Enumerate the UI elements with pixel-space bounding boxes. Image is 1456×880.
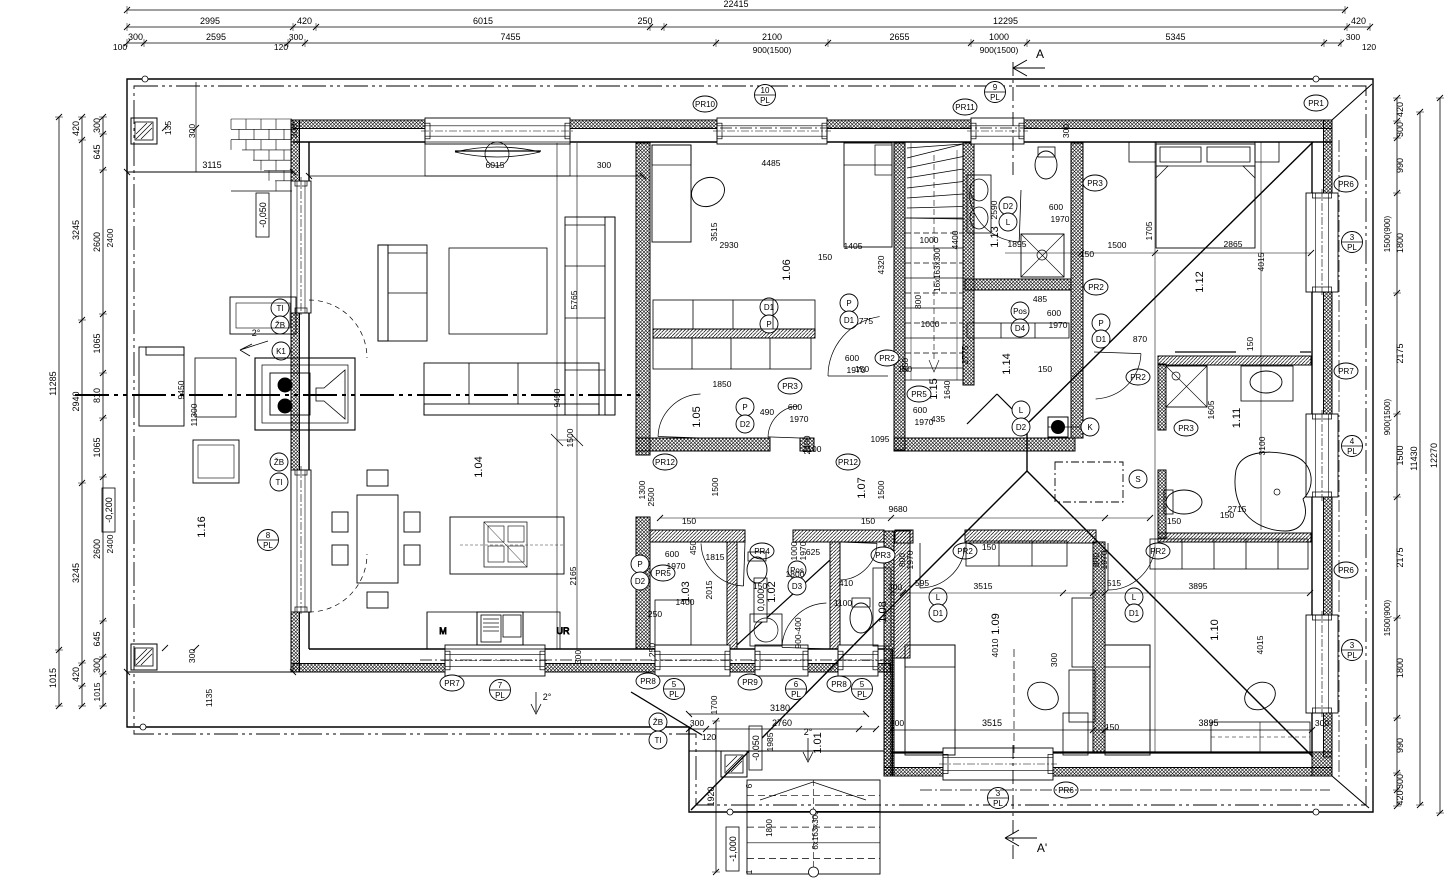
svg-text:5: 5 [860,680,865,689]
svg-text:1400: 1400 [676,597,695,607]
svg-text:16x163x300: 16x163x300 [933,248,942,292]
svg-text:1000: 1000 [989,32,1009,42]
svg-text:PR3: PR3 [875,551,891,560]
svg-text:PL: PL [263,541,273,550]
svg-text:PL: PL [990,93,1000,102]
svg-text:ŽB: ŽB [653,718,663,727]
svg-text:625: 625 [806,547,820,557]
svg-text:D1: D1 [1129,609,1140,618]
svg-text:PL: PL [760,96,770,105]
svg-text:PR2: PR2 [957,547,973,556]
svg-text:0,000: 0,000 [756,589,766,612]
svg-text:1.10: 1.10 [1209,619,1221,640]
svg-text:PR11: PR11 [955,103,975,112]
svg-text:600: 600 [665,549,679,559]
svg-text:1500: 1500 [1395,445,1405,465]
svg-text:K1: K1 [276,347,286,356]
svg-text:870: 870 [1133,334,1147,344]
svg-text:1065: 1065 [92,333,102,353]
svg-text:600: 600 [788,402,802,412]
svg-text:PL: PL [1347,243,1357,252]
svg-text:2775: 2775 [960,345,970,364]
svg-text:8: 8 [266,531,271,540]
svg-text:3515: 3515 [709,222,719,241]
svg-text:1705: 1705 [1144,221,1154,240]
svg-text:2590: 2590 [989,200,999,219]
svg-text:PR6: PR6 [1058,786,1074,795]
svg-text:5345: 5345 [1165,32,1185,42]
svg-text:300: 300 [92,658,102,673]
svg-text:PL: PL [857,690,867,699]
svg-text:3180: 3180 [770,703,790,713]
svg-text:4015: 4015 [1255,635,1265,654]
svg-text:M: M [439,626,447,636]
svg-text:3895: 3895 [1189,581,1208,591]
svg-text:1850: 1850 [713,379,732,389]
svg-text:150: 150 [1167,516,1181,526]
svg-text:2600: 2600 [92,232,102,252]
svg-text:1.09: 1.09 [990,613,1002,634]
svg-text:1: 1 [745,869,754,874]
svg-text:2600: 2600 [92,539,102,559]
svg-text:600: 600 [913,405,927,415]
svg-text:2°: 2° [252,328,261,338]
svg-text:-0,200: -0,200 [104,497,114,523]
svg-text:L: L [1019,406,1024,415]
svg-text:PL: PL [1347,447,1357,456]
svg-text:PR12: PR12 [655,458,676,467]
svg-text:P: P [1098,319,1103,328]
svg-text:135: 135 [163,121,173,135]
svg-text:1500(900): 1500(900) [1383,215,1392,252]
svg-text:7: 7 [498,681,503,690]
svg-text:485: 485 [1033,294,1047,304]
svg-text:2595: 2595 [206,32,226,42]
svg-text:PL: PL [495,691,505,700]
svg-text:1.02: 1.02 [766,581,778,602]
svg-text:2715: 2715 [1228,504,1247,514]
svg-text:2400: 2400 [105,228,115,247]
svg-text:600: 600 [1047,308,1061,318]
svg-text:1065: 1065 [92,437,102,457]
svg-text:1970: 1970 [905,550,915,569]
svg-text:L: L [936,593,941,602]
svg-text:3: 3 [1350,641,1355,650]
svg-text:A': A' [1037,841,1047,855]
svg-text:1970: 1970 [790,414,809,424]
svg-text:300: 300 [888,582,902,592]
svg-text:595: 595 [915,578,929,588]
svg-text:S: S [1135,475,1140,484]
svg-text:D1: D1 [1096,335,1107,344]
svg-text:P: P [742,403,747,412]
svg-text:1970: 1970 [798,541,808,560]
svg-text:1970: 1970 [1051,214,1070,224]
svg-text:1.14: 1.14 [1001,353,1013,374]
svg-text:PR10: PR10 [695,100,716,109]
svg-text:1500: 1500 [1108,240,1127,250]
svg-text:PR3: PR3 [1087,179,1103,188]
svg-text:300: 300 [1395,774,1405,789]
svg-text:TI: TI [276,304,283,313]
svg-text:2500: 2500 [646,487,656,506]
svg-text:K: K [1087,423,1093,432]
svg-text:1.16: 1.16 [196,516,208,537]
svg-text:2400: 2400 [802,435,812,454]
svg-text:515: 515 [1107,578,1121,588]
svg-text:PR4: PR4 [754,547,770,556]
svg-text:1800: 1800 [786,569,805,579]
svg-text:2°: 2° [543,692,552,702]
svg-text:PR3: PR3 [1178,424,1194,433]
svg-text:3895: 3895 [1198,718,1218,728]
svg-text:PR2: PR2 [1150,547,1166,556]
svg-text:2175: 2175 [1395,343,1405,363]
svg-text:L: L [1006,218,1011,227]
svg-text:L: L [1132,593,1137,602]
svg-text:PR1: PR1 [1308,99,1324,108]
svg-text:3245: 3245 [71,563,81,583]
svg-text:300: 300 [573,650,583,664]
svg-text:11300: 11300 [189,403,199,426]
svg-text:420: 420 [71,667,81,682]
svg-text:150: 150 [861,516,875,526]
svg-text:PR2: PR2 [879,354,895,363]
svg-text:A: A [1036,47,1044,61]
svg-text:300: 300 [187,124,197,138]
svg-text:490: 490 [760,407,774,417]
svg-text:6x163x300: 6x163x300 [811,810,820,850]
svg-text:300: 300 [1346,32,1360,42]
svg-text:2165: 2165 [568,566,578,585]
svg-text:120: 120 [1362,42,1376,52]
svg-text:300: 300 [289,124,299,138]
svg-text:810: 810 [92,388,102,403]
svg-text:D2: D2 [740,420,751,429]
svg-text:9680: 9680 [889,504,908,514]
svg-text:D2: D2 [1016,423,1027,432]
svg-text:420: 420 [297,16,312,26]
svg-text:1970: 1970 [1049,320,1068,330]
svg-text:600: 600 [845,353,859,363]
svg-text:PR6: PR6 [1338,566,1354,575]
svg-text:5765: 5765 [569,290,579,309]
svg-text:1015: 1015 [48,668,58,688]
svg-text:120: 120 [274,42,288,52]
svg-text:10: 10 [761,86,770,95]
svg-text:300: 300 [1061,124,1071,138]
svg-text:2100: 2100 [762,32,782,42]
svg-text:300: 300 [128,32,143,42]
svg-text:1000: 1000 [921,319,940,329]
svg-text:P: P [846,299,851,308]
svg-text:150: 150 [682,516,696,526]
svg-text:1.07: 1.07 [856,477,868,498]
svg-text:300: 300 [890,718,904,728]
svg-text:2865: 2865 [1224,239,1243,249]
svg-text:1100: 1100 [834,598,853,608]
svg-text:-0,050: -0,050 [258,202,268,228]
svg-text:PL: PL [1347,651,1357,660]
svg-text:6: 6 [794,680,799,689]
svg-text:D1: D1 [844,316,855,325]
svg-text:D1: D1 [933,609,944,618]
svg-text:900(1500): 900(1500) [753,45,792,55]
svg-text:PR9: PR9 [742,678,758,687]
svg-text:900(1500): 900(1500) [1383,398,1392,435]
svg-text:420: 420 [1395,102,1405,117]
svg-text:PL: PL [791,690,801,699]
svg-text:250: 250 [637,16,652,26]
svg-text:1895: 1895 [1008,239,1027,249]
svg-text:1605: 1605 [1206,400,1216,419]
svg-text:1970: 1970 [915,417,934,427]
svg-text:420: 420 [1395,790,1405,805]
svg-text:150: 150 [1105,722,1119,732]
svg-text:9450: 9450 [176,380,186,399]
svg-text:2°: 2° [804,727,813,737]
svg-text:-1,000: -1,000 [728,836,738,862]
svg-text:2995: 2995 [200,16,220,26]
svg-text:PR8: PR8 [831,680,847,689]
svg-text:1500: 1500 [710,477,720,496]
svg-text:150: 150 [982,542,996,552]
svg-text:1800: 1800 [765,819,774,837]
svg-text:2760: 2760 [772,718,792,728]
svg-text:990: 990 [1395,738,1405,753]
svg-text:3515: 3515 [974,581,993,591]
svg-text:1015: 1015 [92,682,102,701]
svg-text:PL: PL [993,799,1003,808]
svg-text:420: 420 [71,121,81,136]
svg-text:PR8: PR8 [640,677,656,686]
svg-text:PR12: PR12 [838,458,859,467]
svg-text:PR2: PR2 [1088,283,1104,292]
svg-text:300: 300 [597,160,611,170]
svg-text:120: 120 [702,732,716,742]
svg-text:250: 250 [900,358,910,372]
svg-text:300: 300 [1315,718,1329,728]
svg-text:5: 5 [672,680,677,689]
svg-text:1640: 1640 [942,380,952,399]
svg-text:300: 300 [187,649,197,663]
svg-text:P: P [637,560,642,569]
svg-text:1.12: 1.12 [1194,271,1206,292]
svg-text:TI: TI [275,478,282,487]
svg-text:300: 300 [92,118,102,133]
svg-text:1095: 1095 [871,434,890,444]
svg-text:-0,050: -0,050 [751,735,761,761]
svg-text:PR7: PR7 [444,679,460,688]
svg-text:450: 450 [688,541,698,555]
svg-text:1970: 1970 [667,561,686,571]
svg-text:1135: 1135 [204,689,214,708]
svg-text:100: 100 [113,42,127,52]
svg-text:1700: 1700 [709,695,719,714]
svg-text:800: 800 [913,295,923,309]
svg-text:1.11: 1.11 [1231,408,1243,429]
svg-text:1500(900): 1500(900) [1383,599,1392,636]
svg-text:D3: D3 [792,582,803,591]
svg-text:12270: 12270 [1429,443,1439,468]
svg-text:PR2: PR2 [1130,373,1146,382]
svg-text:600: 600 [1049,202,1063,212]
svg-text:Pos: Pos [1013,307,1027,316]
svg-text:D2: D2 [1003,202,1014,211]
svg-text:4485: 4485 [762,158,781,168]
svg-text:1800: 1800 [1395,658,1405,678]
svg-text:3: 3 [1350,233,1355,242]
svg-text:1970: 1970 [847,365,866,375]
svg-text:6015: 6015 [473,16,493,26]
svg-text:12295: 12295 [993,16,1018,26]
svg-text:4320: 4320 [876,255,886,274]
svg-text:900(1500): 900(1500) [980,45,1019,55]
svg-text:1.06: 1.06 [781,259,793,280]
svg-text:150: 150 [1080,249,1094,259]
svg-text:2175: 2175 [1395,547,1405,567]
svg-text:1.04: 1.04 [473,456,485,477]
svg-text:1800: 1800 [1395,233,1405,253]
svg-text:1985: 1985 [765,732,775,751]
svg-text:D4: D4 [1015,324,1026,333]
svg-text:22415: 22415 [723,0,748,9]
svg-text:TI: TI [654,736,661,745]
svg-text:4: 4 [1350,437,1355,446]
svg-text:300: 300 [289,32,303,42]
svg-text:410: 410 [839,578,853,588]
svg-text:PR5: PR5 [911,390,927,399]
svg-text:1500: 1500 [565,428,575,447]
svg-text:2940: 2940 [71,391,81,411]
svg-text:UR: UR [557,626,570,636]
svg-text:1.05: 1.05 [691,406,703,427]
svg-text:1.08: 1.08 [877,601,889,622]
svg-text:1000: 1000 [920,235,939,245]
svg-text:2015: 2015 [704,580,714,599]
svg-text:11430: 11430 [1409,446,1419,470]
svg-text:3245: 3245 [71,220,81,240]
svg-text:4010: 4010 [990,638,1000,657]
svg-text:300: 300 [1049,653,1059,667]
svg-text:4400: 4400 [950,230,960,249]
svg-text:7455: 7455 [500,32,520,42]
svg-text:990: 990 [1395,158,1405,173]
svg-text:ŽB: ŽB [274,458,284,467]
svg-text:9: 9 [993,83,998,92]
svg-text:1970: 1970 [1099,550,1109,569]
svg-text:150: 150 [818,252,832,262]
svg-text:775: 775 [859,316,873,326]
svg-text:2930: 2930 [720,240,739,250]
svg-text:150: 150 [1038,364,1052,374]
svg-text:1815: 1815 [706,552,725,562]
svg-text:PR7: PR7 [1338,367,1354,376]
svg-text:900-400: 900-400 [793,617,803,648]
svg-text:2655: 2655 [889,32,909,42]
svg-text:1405: 1405 [844,241,863,251]
svg-text:1.01: 1.01 [812,732,824,753]
svg-text:645: 645 [92,144,102,159]
svg-text:2400: 2400 [105,534,115,553]
svg-text:PR6: PR6 [1338,180,1354,189]
svg-text:PR3: PR3 [782,382,798,391]
svg-text:420: 420 [1351,16,1366,26]
svg-text:11285: 11285 [48,371,58,395]
svg-text:ŽB: ŽB [275,321,285,330]
svg-text:D2: D2 [635,577,646,586]
svg-text:PL: PL [669,690,679,699]
svg-text:1500: 1500 [876,480,886,499]
svg-text:3515: 3515 [982,718,1002,728]
svg-text:300: 300 [1395,122,1405,137]
svg-text:P: P [766,320,771,329]
svg-text:6: 6 [745,783,754,788]
svg-text:645: 645 [92,631,102,646]
svg-text:150: 150 [1245,337,1255,351]
svg-text:3115: 3115 [202,160,221,170]
